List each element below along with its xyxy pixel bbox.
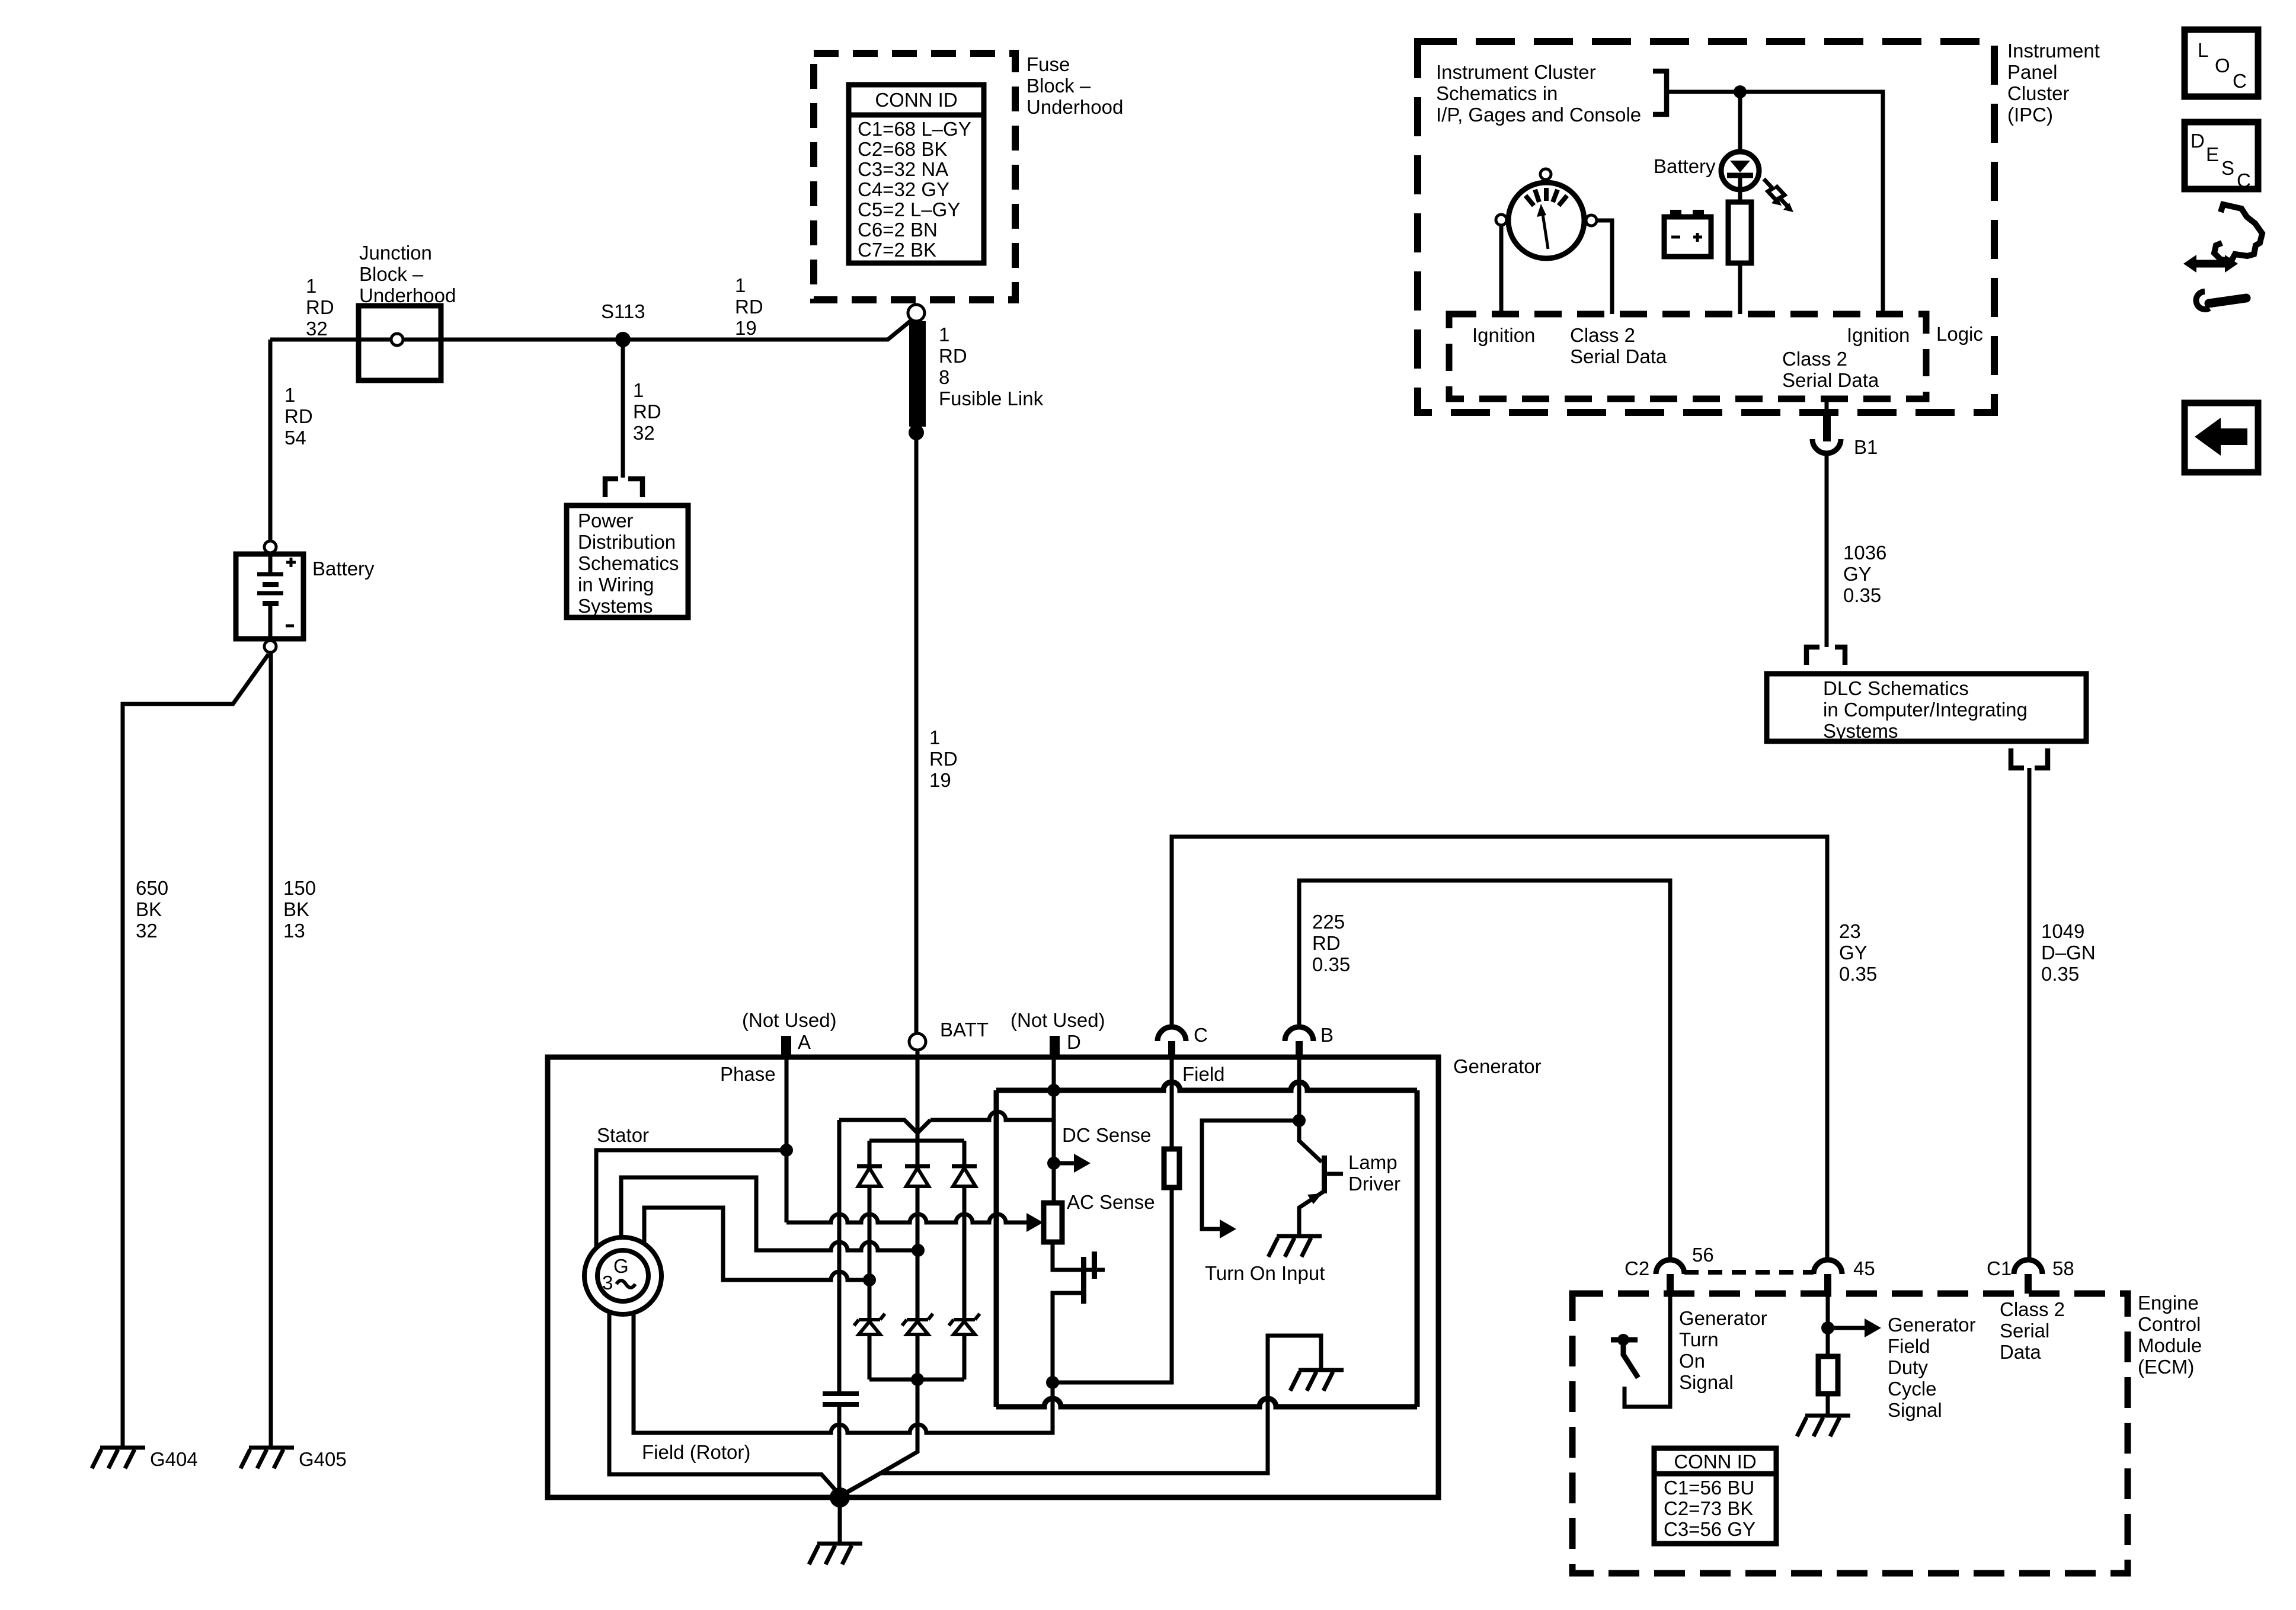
connector B1 [1812,412,1841,647]
phase A wire down [785,1058,789,1222]
svg-text:Generator: Generator [1679,1307,1767,1329]
lamp driver ground [1268,1236,1322,1257]
svg-text:C7=2 BK: C7=2 BK [858,239,936,261]
node bottom rail to BATT column [911,1373,924,1386]
wire resistor to logic box [1738,263,1742,314]
wire S113 to fusible link [623,321,911,340]
svg-text:Fusible Link: Fusible Link [939,388,1044,409]
svg-text:32: 32 [633,422,655,444]
indicator resistor [1738,190,1742,202]
stator loop 1 [596,1150,786,1248]
battery G1 box [236,554,303,639]
connector bracket above power distribution box [605,479,642,497]
wire battery negative diagonal to G404 [123,654,268,1448]
generator G circle outer [584,1237,661,1314]
ECM ground [1797,1416,1850,1436]
svg-text:Generator: Generator [1453,1055,1542,1077]
svg-text:1: 1 [735,274,746,296]
svg-text:Phase: Phase [720,1063,776,1085]
svg-text:C: C [1194,1024,1208,1046]
LED diode triangle [1730,161,1750,172]
LED cathode bar [1727,173,1753,178]
svg-text:Class 2: Class 2 [1570,324,1635,346]
svg-text:Engine: Engine [2138,1292,2199,1314]
wire node down to battery indicator [1738,92,1742,152]
svg-text:C: C [2237,169,2251,191]
svg-text:225: 225 [1312,911,1345,933]
DLC schematics box [1767,674,2086,741]
svg-text:(Not Used): (Not Used) [1011,1009,1105,1031]
regulator inner box right edge [1415,1090,1420,1407]
ECM pulldown resistor [1818,1356,1838,1394]
G lead right down and to regulator [634,1313,1053,1433]
instrument panel cluster dashed box [1418,41,1994,412]
wire node down to generator ground [838,1497,842,1544]
svg-text:Block –: Block – [1027,75,1091,97]
svg-text:150: 150 [283,877,316,899]
svg-text:Schematics: Schematics [578,552,679,574]
svg-text:Stator: Stator [597,1124,649,1146]
svg-text:1: 1 [929,726,940,748]
bridge top rail right to D wire [930,1112,1054,1120]
svg-text:G405: G405 [299,1448,347,1470]
svg-text:Panel: Panel [2007,61,2057,83]
svg-text:C4=32 GY: C4=32 GY [858,178,949,200]
zener Z3 [949,1314,980,1334]
node 45 wire [1821,1321,1834,1334]
svg-text:S113: S113 [601,300,645,322]
wire fusible link down to generator BATT [914,433,919,1033]
svg-text:1: 1 [284,384,295,406]
G lead left down to node [609,1313,840,1496]
svg-text:Turn: Turn [1679,1329,1719,1350]
wire junction block left down to battery [268,340,273,542]
svg-text:D: D [2191,130,2205,152]
junction block internal wire [359,338,441,342]
fusible link thick element [909,321,926,427]
ECM dashed box [1572,1294,2128,1573]
svg-text:RD: RD [306,296,334,318]
svg-text:C2=73 BK: C2=73 BK [1664,1497,1753,1519]
svg-text:0.35: 0.35 [2041,963,2079,985]
node S113 [615,332,631,347]
gauge left terminal [1496,215,1507,225]
svg-text:AC Sense: AC Sense [1067,1191,1155,1213]
svg-text:C2: C2 [1625,1257,1649,1279]
svg-text:19: 19 [929,769,951,791]
wire gauge left terminal to logic [1499,225,1504,314]
svg-text:1: 1 [306,275,316,297]
wire junction block to S113 [441,338,623,342]
wire C terminal up and to ECM 45 [1172,837,1827,1260]
svg-text:RD: RD [735,296,763,318]
node below fusible link [909,425,924,440]
svg-text:BATT: BATT [940,1019,989,1041]
svg-text:(IPC): (IPC) [2007,104,2053,126]
svg-text:GY: GY [1843,563,1872,585]
terminal D stub [1050,1036,1060,1058]
back arrow icon box [2185,403,2258,472]
wire battery negative straight down to G405 [269,652,273,1448]
node loop2 to column2 [912,1244,925,1257]
svg-text:Generator: Generator [1888,1314,1976,1336]
svg-text:Class 2: Class 2 [2000,1298,2065,1320]
svg-text:C1=56 BU: C1=56 BU [1664,1477,1754,1499]
field coil resistor [1164,1149,1179,1188]
DESC icon box [2185,122,2258,189]
svg-text:B1: B1 [1854,436,1878,458]
comparator bar 1 [1081,1257,1086,1304]
svg-text:GY: GY [1839,942,1868,964]
node D wire at regulator edge [1047,1084,1060,1097]
svg-text:CONN ID: CONN ID [1674,1451,1756,1473]
wire AC resistor down to comparator [1053,1242,1105,1270]
svg-text:BK: BK [136,898,162,920]
diode D2 [905,1166,930,1186]
gauge ticks [1526,188,1567,206]
svg-text:Driver: Driver [1348,1173,1400,1195]
AC sense resistor [1044,1203,1062,1242]
svg-text:3: 3 [602,1272,613,1294]
logic dashed box [1449,314,1926,399]
battery positive terminal circle [264,541,276,553]
svg-text:Battery: Battery [312,558,375,580]
switch lever [1623,1340,1638,1378]
svg-text:E: E [2206,143,2219,165]
svg-text:BK: BK [283,898,309,920]
svg-text:Distribution: Distribution [578,531,676,553]
diode D1 [857,1166,882,1186]
switch contact bar [1611,1337,1638,1343]
node field return [1046,1376,1059,1389]
svg-text:C3=56 GY: C3=56 GY [1664,1518,1755,1540]
svg-text:Ignition: Ignition [1847,324,1910,346]
wire resistor to ECM ground [1826,1394,1830,1416]
diode column 3 [962,1141,967,1379]
AC sense arrowhead [1027,1213,1043,1232]
fuse block CONN ID table [849,85,984,263]
svg-text:On: On [1679,1350,1705,1372]
gauge top terminal [1540,169,1551,180]
LOC icon box [2185,30,2258,97]
svg-text:Field (Rotor): Field (Rotor) [642,1441,750,1463]
wire DLC to ECM C1 [2028,768,2032,1260]
wire gauge right terminal to logic [1597,220,1612,314]
svg-text:I/P, Gages and Console: I/P, Gages and Console [1436,104,1641,126]
svg-text:S: S [2221,157,2234,179]
connector C2 at ECM [1656,1260,1684,1294]
generator G circle inner [597,1250,648,1301]
connector B at generator [1285,1027,1313,1058]
connector 45 at ECM [1814,1260,1842,1294]
regulator inner box bottom edge with bumps [996,1398,1417,1407]
bridge bottom rail [869,1378,964,1382]
wire ipc top rail [1667,92,1883,314]
svg-text:Systems: Systems [578,595,653,617]
emitter arrow [1307,1193,1322,1204]
capacitor plates [823,1394,859,1404]
regulator inner box top edge with bumps at C and B wires [996,1082,1417,1090]
svg-text:(ECM): (ECM) [2138,1356,2194,1378]
stator loop 3 [644,1208,869,1280]
svg-text:C1: C1 [1987,1257,2012,1279]
svg-text:Cycle: Cycle [1888,1378,1937,1400]
bracket below DLC box [2011,748,2048,768]
svg-text:Instrument Cluster: Instrument Cluster [1436,61,1596,83]
zener Z1 [854,1314,885,1334]
D wire inside generator [1052,1058,1056,1203]
svg-text:O: O [2215,55,2230,76]
power distribution schematics box [567,505,688,617]
gauge needle [1542,210,1548,249]
svg-text:C1=68 L–GY: C1=68 L–GY [858,118,971,140]
svg-text:RD: RD [1312,932,1341,954]
field duty cycle arrow [1833,1326,1865,1330]
svg-text:0.35: 0.35 [1312,953,1350,975]
svg-text:in Wiring: in Wiring [578,574,654,596]
connector C1 at ECM [2014,1260,2042,1294]
generator case ground [809,1544,862,1564]
bracket to instrument cluster schematics [1653,71,1667,114]
node phase A / stator loop1 [780,1144,793,1157]
field coil resistor wire from C [1170,1058,1174,1149]
svg-text:Signal: Signal [1888,1399,1942,1421]
svg-text:Systems: Systems [1823,720,1898,742]
svg-text:C2=68 BK: C2=68 BK [858,138,947,160]
svg-text:in Computer/Integrating: in Computer/Integrating [1823,699,2028,721]
svg-text:Data: Data [2000,1341,2041,1363]
junction block terminal circle [391,334,403,345]
battery internal plates [268,554,273,576]
svg-text:Logic: Logic [1936,323,1983,345]
svg-text:Lamp: Lamp [1348,1151,1398,1173]
svg-text:CONN ID: CONN ID [875,89,957,111]
svg-text:RD: RD [284,405,313,427]
svg-text:58: 58 [2052,1257,2074,1279]
wire C2 into ECM switch [1625,1294,1670,1407]
svg-text:Duty: Duty [1888,1356,1928,1378]
svg-text:DLC Schematics: DLC Schematics [1823,677,1969,699]
generator bottom node [830,1487,850,1507]
stator row 1 with hops to AC sense arrow [786,1214,1027,1222]
svg-text:RD: RD [929,748,958,770]
turn on input wire [1202,1121,1299,1229]
svg-text:C: C [2233,70,2247,92]
svg-text:32: 32 [136,920,158,942]
svg-text:1: 1 [939,324,949,345]
bridge top inner rail [869,1139,964,1143]
svg-text:B: B [1320,1024,1334,1046]
generator outer box [548,1057,1438,1497]
wire B terminal up and to ECM C2 [1299,881,1670,1260]
svg-text:Serial: Serial [2000,1320,2049,1342]
fuse block underhood dashed box [814,53,1015,300]
field coil return wire [1053,1188,1172,1382]
zener Z2 [902,1314,933,1334]
diode column 1 [868,1141,872,1379]
stator loop 2 [621,1177,918,1250]
lamp driver base bar [1322,1156,1327,1193]
svg-text:45: 45 [1853,1257,1875,1279]
svg-text:Turn On Input: Turn On Input [1205,1262,1325,1284]
svg-text:Schematics in: Schematics in [1436,82,1558,104]
svg-text:Field: Field [1182,1063,1225,1085]
gauge right terminal [1586,215,1597,226]
turn on input arrowhead [1220,1219,1236,1238]
svg-text:RD: RD [939,345,967,367]
svg-text:C6=2 BN: C6=2 BN [858,219,938,241]
bracket above DLC box [1806,647,1845,665]
comparator lower lead [1053,1293,1081,1382]
node lamp driver [1293,1114,1306,1127]
wire S113 down to power distribution [621,340,625,478]
battery negative terminal circle [264,641,276,652]
svg-text:G: G [613,1255,629,1277]
svg-text:0.35: 0.35 [1843,584,1881,606]
node to regulator-right return wire [840,1336,1321,1496]
svg-text:8: 8 [939,366,949,388]
node loop3 to column1 [863,1273,876,1286]
svg-text:Power: Power [578,510,634,532]
svg-text:0.35: 0.35 [1839,963,1877,985]
lamp driver transistor collector [1299,1121,1322,1162]
dashed jumper C2 to 45 [1684,1270,1814,1275]
bridge top rail left with V [839,1120,930,1133]
svg-text:1036: 1036 [1843,542,1886,564]
svg-text:Junction: Junction [359,242,432,264]
regulator inner box left edge [994,1090,999,1407]
svg-text:32: 32 [306,318,328,340]
svg-text:Ignition: Ignition [1472,324,1535,346]
svg-text:Serial Data: Serial Data [1570,345,1667,367]
B wire inside generator [1297,1058,1302,1121]
switch contact dot [1617,1334,1629,1346]
ground G404 [92,1448,145,1468]
wire 45 into ECM [1826,1294,1830,1356]
svg-text:Serial Data: Serial Data [1782,369,1879,391]
DC sense arrow [1059,1161,1074,1166]
svg-text:D: D [1067,1031,1081,1053]
svg-text:RD: RD [633,401,661,422]
svg-text:L: L [2198,39,2208,61]
svg-text:(Not Used): (Not Used) [742,1009,837,1031]
comparator bar 2 [1092,1251,1097,1279]
battery plus sign [286,558,296,567]
node ipc rail [1734,85,1747,98]
battery minus sign [286,625,294,628]
svg-text:Control: Control [2138,1313,2201,1335]
svg-text:Cluster: Cluster [2007,82,2070,104]
lamp driver base lead [1327,1172,1343,1176]
svg-text:23: 23 [1839,920,1861,942]
node DC sense [1047,1157,1060,1170]
battery indicator LED circle [1721,152,1759,190]
capacitor lower wire to node [837,1407,842,1496]
svg-text:Class 2: Class 2 [1782,348,1847,370]
data link connector icon [2183,204,2262,309]
svg-text:13: 13 [283,920,305,942]
wire logic to B1 [1825,399,1829,414]
svg-text:Module: Module [2138,1334,2202,1356]
svg-text:Fuse: Fuse [1027,53,1070,75]
svg-text:D–GN: D–GN [2041,942,2096,964]
svg-text:Battery: Battery [1654,155,1716,177]
svg-text:1: 1 [633,379,644,401]
ground G405 [241,1448,294,1468]
wire battery-positive to junction block [270,338,359,342]
lamp driver emitter [1299,1192,1323,1236]
wire BATT down through bridge to node [842,1050,917,1496]
LED lightning arrows [1764,179,1793,212]
svg-text:650: 650 [136,877,168,899]
svg-text:19: 19 [735,317,757,339]
svg-text:56: 56 [1692,1244,1714,1266]
gauge circle [1508,183,1584,258]
svg-text:A: A [798,1031,811,1053]
svg-text:DC Sense: DC Sense [1062,1124,1151,1146]
svg-text:Underhood: Underhood [1027,96,1123,118]
diode D3 [952,1166,977,1186]
terminal A stub [781,1036,791,1058]
svg-text:Block –: Block – [359,263,424,285]
svg-text:G404: G404 [150,1448,198,1470]
svg-text:C3=32 NA: C3=32 NA [858,158,948,180]
junction block - underhood box [359,306,441,380]
svg-text:Signal: Signal [1679,1371,1734,1393]
terminal BATT circle [909,1033,926,1050]
small battery icon [1664,210,1711,257]
connector C at generator [1157,1027,1186,1058]
svg-text:54: 54 [284,427,306,449]
svg-text:C5=2 L–GY: C5=2 L–GY [858,199,960,220]
svg-text:1049: 1049 [2041,920,2084,942]
fuse block output terminal circle [908,305,925,321]
ECM CONN ID table [1654,1448,1776,1544]
bridge left rail down to capacitor [837,1120,842,1394]
ground in regulator lower right [1290,1370,1344,1391]
svg-text:Field: Field [1888,1335,1930,1357]
svg-text:Underhood: Underhood [359,284,456,306]
svg-text:Instrument: Instrument [2007,40,2100,62]
